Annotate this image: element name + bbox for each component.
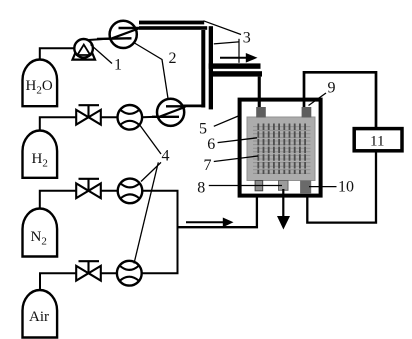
bottom tab left 8 xyxy=(255,181,263,191)
leader to label 8 xyxy=(209,185,282,187)
wire pump to heat exchanger xyxy=(89,39,110,40)
leader to label 2 xyxy=(135,43,169,99)
leader to label 10 xyxy=(309,186,337,188)
wire H2 to valve xyxy=(40,117,76,130)
heated line 3: top inner bar xyxy=(139,26,207,30)
svg-text:4: 4 xyxy=(162,148,170,165)
exhaust pipe with arrow xyxy=(282,189,284,223)
gas cylinder Air xyxy=(23,290,58,338)
gas cylinder H2 xyxy=(23,131,58,178)
leader to label 6 xyxy=(218,138,257,143)
furnace 5 xyxy=(240,100,321,196)
svg-text:Air: Air xyxy=(29,309,49,325)
top tab gas inlet xyxy=(256,107,266,118)
bottom tab right electrode 10 xyxy=(300,181,311,195)
heat exchanger (evaporator) 2a xyxy=(97,21,143,48)
svg-text:8: 8 xyxy=(197,180,205,197)
svg-text:11: 11 xyxy=(370,134,384,150)
flow meter (N2 line) xyxy=(101,179,143,204)
electrode wire top to box 11 xyxy=(304,72,376,127)
svg-text:9: 9 xyxy=(328,79,336,96)
svg-text:5: 5 xyxy=(199,121,207,138)
valve (N2 line) xyxy=(76,179,101,198)
svg-text:3: 3 xyxy=(243,30,251,47)
flow arrow on feed line xyxy=(186,221,224,223)
valve (Air line) xyxy=(76,261,101,280)
heated line 3: right vertical bar xyxy=(209,26,213,109)
svg-text:6: 6 xyxy=(207,136,215,153)
wire H2O to pump xyxy=(40,48,75,60)
bottom tab middle exhaust xyxy=(279,181,289,191)
wire N2 to valve xyxy=(40,191,76,209)
wire flow meter Air to mixer xyxy=(142,272,179,274)
heated line 3: left vertical bar xyxy=(201,30,205,108)
gas cylinder N2 xyxy=(23,209,58,257)
pump 1 xyxy=(73,39,96,60)
svg-text:1: 1 xyxy=(114,57,122,74)
svg-text:7: 7 xyxy=(204,157,212,174)
valve (H2 line) xyxy=(76,105,101,124)
feed line to furnace bottom xyxy=(178,182,257,228)
water tank H2O xyxy=(23,59,58,106)
flow meter (H2 line) xyxy=(101,105,142,130)
heated line 3: top outer bar xyxy=(139,21,204,25)
heated line 3: horizontal bar upper xyxy=(209,63,261,68)
svg-text:10: 10 xyxy=(338,179,354,196)
cell stack block 6 xyxy=(247,117,315,181)
leader to label 7 xyxy=(214,156,258,162)
wire flow meter N2 to mixer xyxy=(142,190,178,192)
wire Air to valve xyxy=(40,273,76,290)
heated line 3: horizontal bar lower xyxy=(213,71,262,76)
top tab electrode 9 xyxy=(302,107,312,118)
flow arrow into furnace xyxy=(220,57,247,59)
leader lines to label 3 xyxy=(204,21,242,63)
leader lines to label 4 xyxy=(134,124,161,264)
cell stack horizontal texture xyxy=(253,127,311,174)
leader to label 9 xyxy=(309,93,327,106)
measurement box 11 xyxy=(354,129,402,151)
pipe into furnace top xyxy=(258,77,261,108)
leader to label 5 xyxy=(214,116,240,127)
mixer vertical wire xyxy=(177,191,179,273)
leader to label 1 xyxy=(91,45,113,64)
heat exchanger 2b xyxy=(152,99,186,126)
wire flow meter to exchanger 2b xyxy=(142,116,157,118)
flow meter (Air line) xyxy=(101,261,142,286)
electrode wire bottom from box 11 xyxy=(307,151,376,223)
heated output line from exchanger 2b xyxy=(183,105,204,108)
svg-text:2: 2 xyxy=(169,50,177,67)
cell stack channels 7 xyxy=(258,124,305,175)
